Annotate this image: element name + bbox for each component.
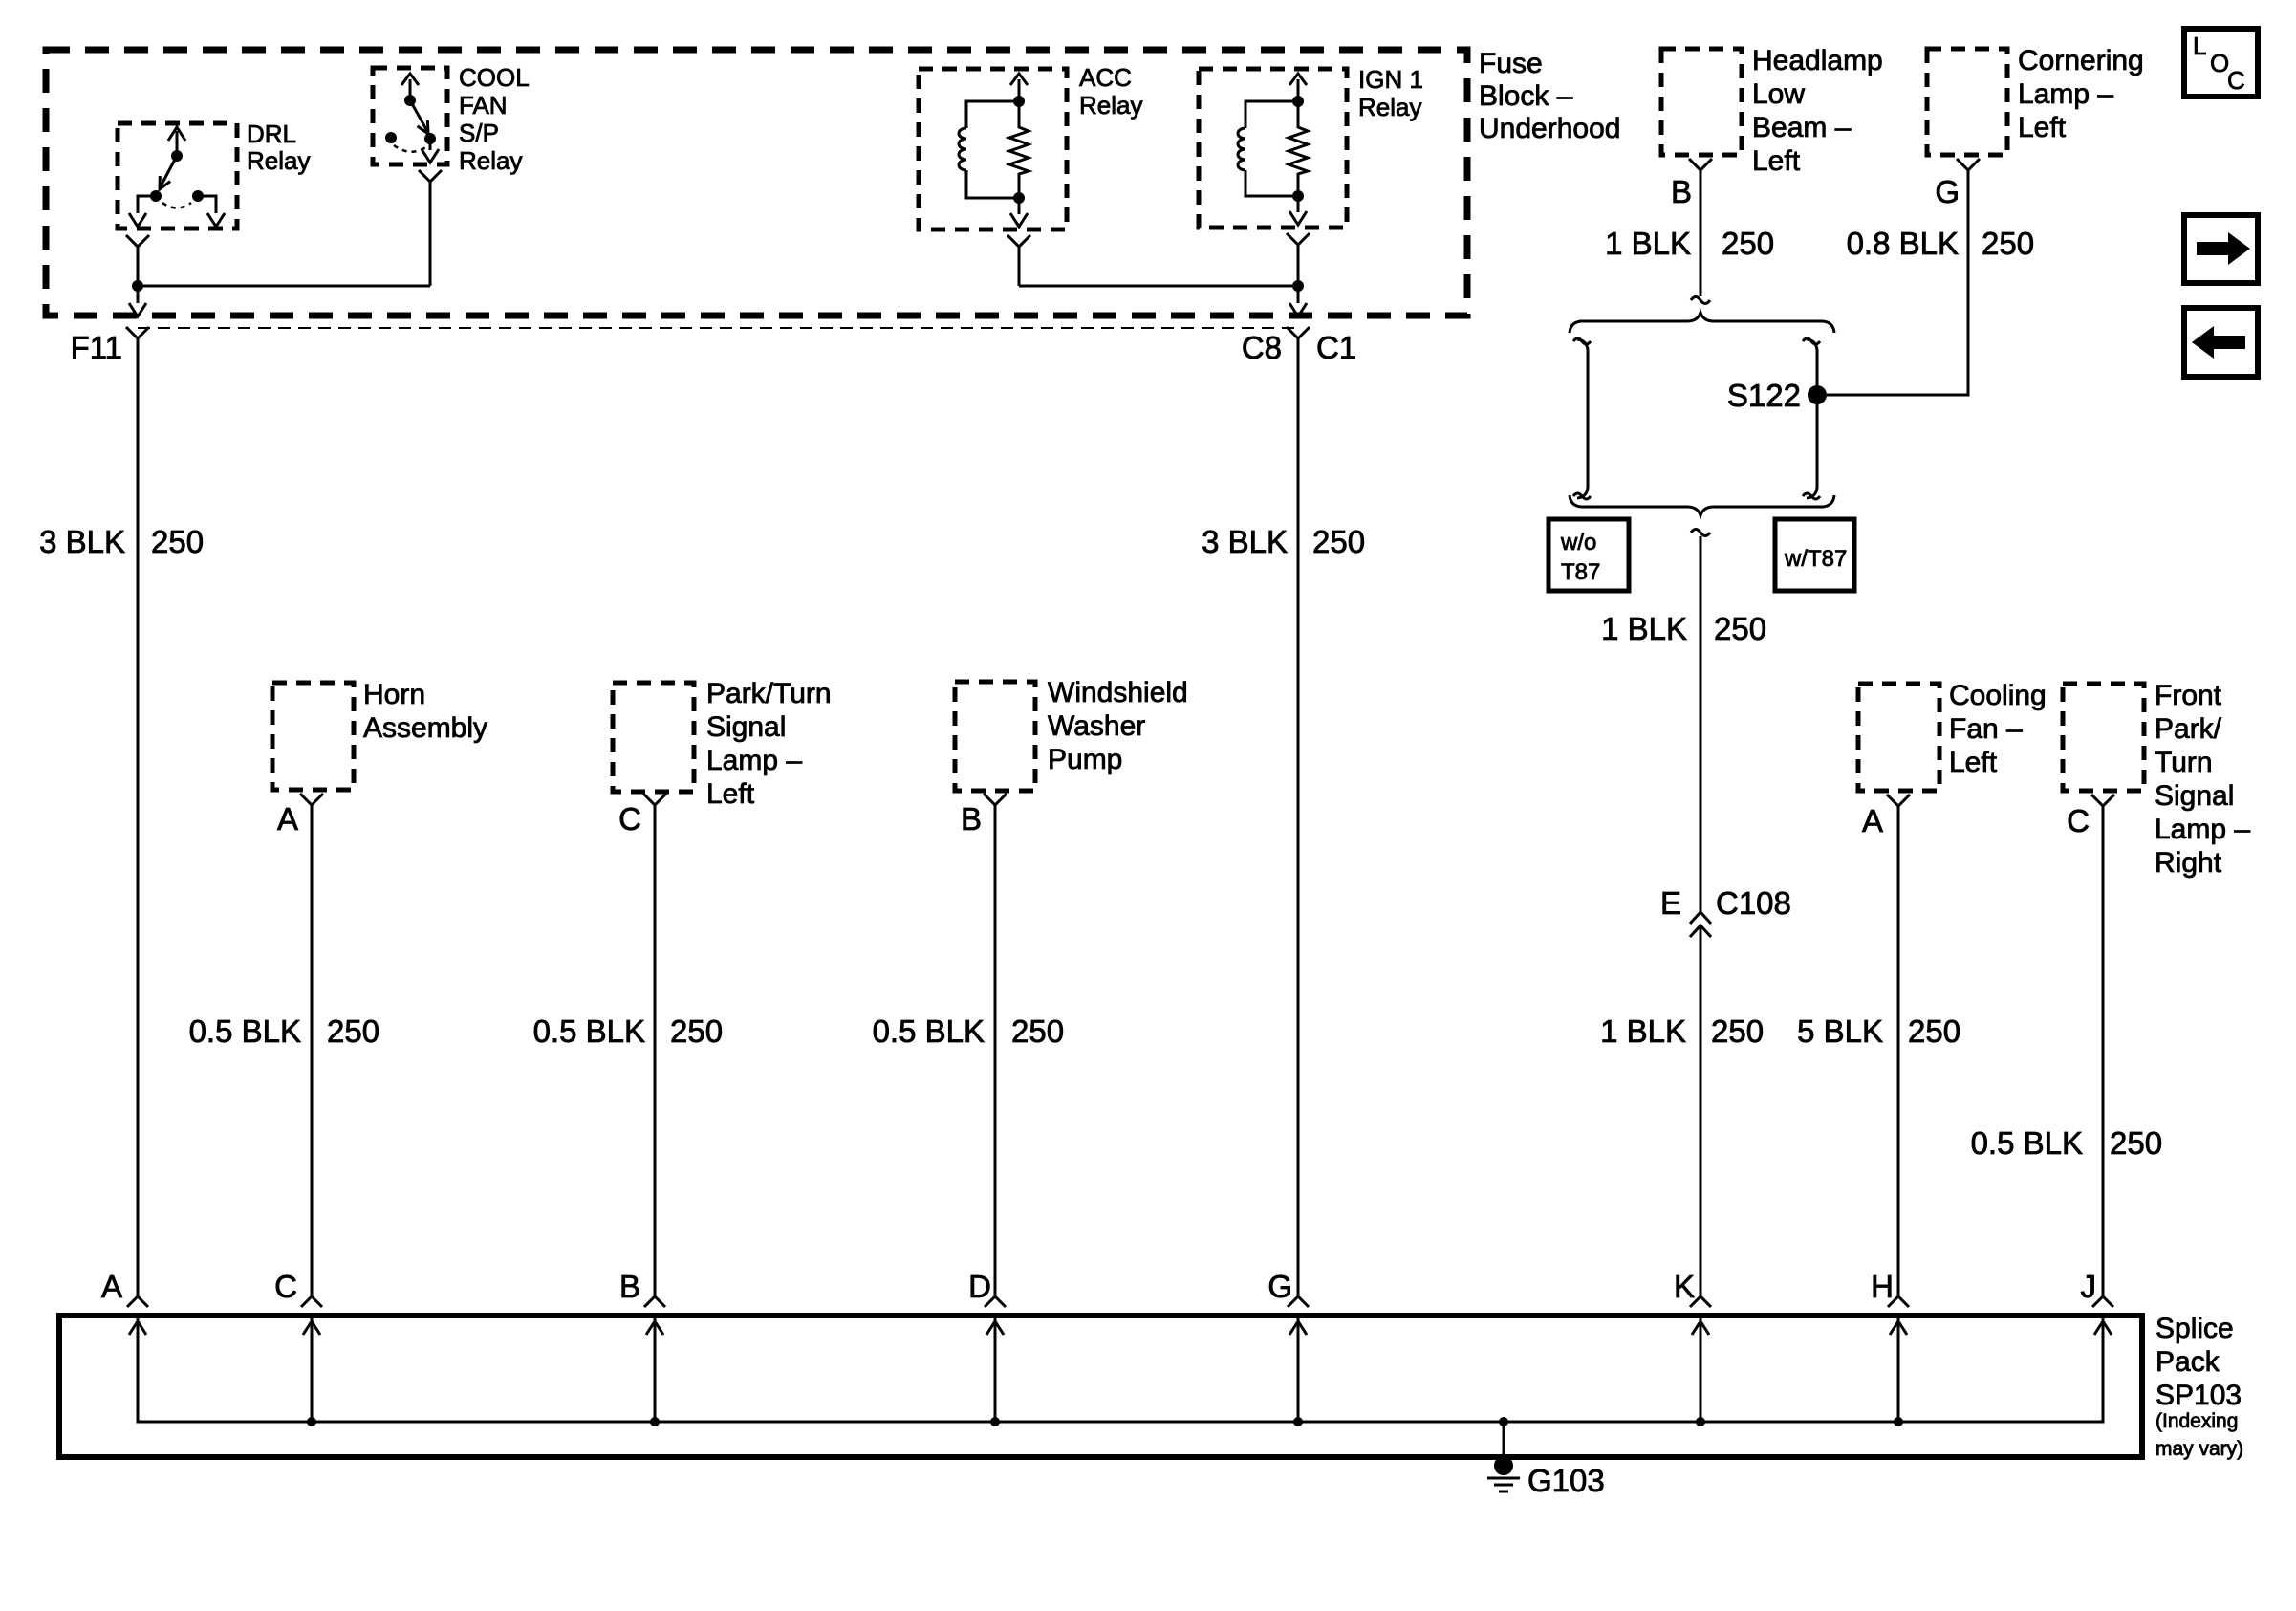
junction dot pin B	[650, 1417, 660, 1426]
svg-text:w/o: w/o	[1560, 530, 1596, 555]
COOL FAN relay pole dot	[424, 133, 436, 144]
svg-text:Park/Turn: Park/Turn	[706, 678, 832, 709]
svg-text:Park/: Park/	[2155, 713, 2222, 745]
svg-text:C108: C108	[1716, 885, 1791, 921]
svg-text:C: C	[2227, 66, 2245, 95]
ACC relay coil branch	[959, 101, 1019, 198]
pin label G (cornering)	[1935, 174, 1960, 209]
svg-text:Lamp –: Lamp –	[2155, 814, 2250, 845]
label Front Park/Turn Signal Lamp - Right	[2155, 680, 2250, 879]
wire label 3 BLK 250 (C1 wire)	[1202, 524, 1365, 559]
svg-text:Fan –: Fan –	[1949, 713, 2023, 745]
svg-text:Underhood: Underhood	[1479, 113, 1620, 144]
DRL relay left contact exit	[129, 196, 156, 227]
connector F11	[126, 327, 149, 338]
svg-text:Relay: Relay	[459, 146, 522, 175]
fuse block connector face (thin dashed)	[138, 327, 1298, 329]
connector at COOL FAN relay output	[419, 170, 442, 182]
svg-text:Turn: Turn	[2155, 747, 2213, 778]
svg-text:Cornering: Cornering	[2018, 45, 2144, 76]
junction dot pin C	[307, 1417, 316, 1426]
svg-text:Left: Left	[1949, 747, 1998, 778]
IGN 1 relay top node dot	[1292, 96, 1304, 107]
svg-text:Assembly: Assembly	[363, 712, 487, 744]
svg-text:Washer: Washer	[1048, 710, 1145, 742]
pin label E (C108)	[1660, 885, 1681, 921]
label Cornering Lamp - Left	[2018, 45, 2144, 143]
svg-text:Lamp –: Lamp –	[706, 745, 802, 776]
DRL relay right contact exit	[198, 196, 225, 227]
component Headlamp Low Beam - Left (dashed box)	[1661, 49, 1742, 155]
splice pack SP103 (box)	[59, 1316, 2142, 1457]
svg-text:1 BLK: 1 BLK	[1601, 611, 1687, 646]
IGN 1 relay bottom node dot	[1292, 190, 1304, 202]
junction dot pin H	[1894, 1417, 1903, 1426]
svg-text:250: 250	[1982, 226, 2034, 261]
arrow DRL junction to fuse block edge	[129, 286, 146, 316]
arrow box pointing left	[2184, 308, 2258, 377]
IGN 1 relay output arrow	[1289, 196, 1307, 225]
svg-text:250: 250	[1908, 1013, 1960, 1049]
svg-text:E: E	[1660, 885, 1681, 921]
svg-text:C8: C8	[1242, 330, 1282, 365]
svg-text:Windshield: Windshield	[1048, 677, 1188, 708]
wire C108 down to splice pack pin K	[1700, 925, 1702, 1297]
pin label C (front park/turn)	[2067, 803, 2090, 838]
pin label F11	[71, 330, 122, 365]
ACC relay pin arrow up	[1010, 74, 1028, 101]
label C108	[1716, 885, 1791, 921]
pin label A (cooling fan)	[1862, 803, 1883, 838]
svg-text:Left: Left	[2018, 112, 2067, 143]
DRL relay thrown-position arc (dashed)	[162, 203, 191, 208]
IGN 1 relay coil branch	[1238, 101, 1298, 196]
wire label 1 BLK 250 (headlamp)	[1605, 226, 1774, 261]
svg-text:250: 250	[2110, 1125, 2162, 1161]
svg-text:Fuse: Fuse	[1479, 48, 1543, 79]
option brace top	[1570, 313, 1834, 333]
connector pin G of cornering lamp	[1957, 159, 1980, 170]
svg-text:Horn: Horn	[363, 679, 425, 710]
connector pin C of front park/turn lamp	[2091, 795, 2114, 806]
pin label K (splice)	[1674, 1269, 1695, 1304]
label COOL FAN S/P Relay	[459, 63, 530, 175]
svg-text:Signal: Signal	[706, 711, 786, 743]
option box w/o T87	[1549, 519, 1629, 591]
label Park/Turn Signal Lamp - Left	[706, 678, 832, 810]
svg-text:0.5 BLK: 0.5 BLK	[873, 1013, 985, 1049]
wire headlamp B down to option brace	[1700, 170, 1702, 296]
ACC relay bottom node dot	[1013, 192, 1025, 204]
wire pin G to bus	[1297, 1318, 1300, 1422]
svg-text:Lamp –: Lamp –	[2018, 78, 2113, 110]
splice pack bus wire	[138, 1318, 2103, 1422]
wire pin H to bus	[1897, 1318, 1900, 1422]
svg-text:Signal: Signal	[2155, 780, 2234, 812]
COOL FAN relay switch blade	[410, 100, 428, 134]
svg-text:Beam –: Beam –	[1752, 112, 1852, 143]
svg-text:0.5 BLK: 0.5 BLK	[533, 1013, 645, 1049]
connector chevron pin D	[985, 1296, 1006, 1307]
connector chevron pin K	[1690, 1296, 1711, 1307]
label w/o T87	[1560, 530, 1600, 585]
svg-text:250: 250	[1011, 1013, 1064, 1049]
svg-text:F11: F11	[71, 330, 122, 365]
arrow into pin K	[1692, 1321, 1709, 1335]
ACC relay top node dot	[1013, 96, 1025, 107]
option branch left (w/o T87)	[1573, 338, 1591, 499]
pin label J (splice)	[2081, 1269, 2097, 1304]
wire horn A down to splice pack pin C	[311, 805, 314, 1297]
pin label H (splice)	[1871, 1269, 1894, 1304]
svg-text:(Indexing: (Indexing	[2155, 1410, 2238, 1432]
wire label 3 BLK 250 (F11 wire)	[39, 524, 204, 559]
svg-text:C: C	[2067, 803, 2090, 838]
svg-text:Relay: Relay	[1358, 93, 1421, 121]
connector chevron pin A	[127, 1296, 148, 1307]
svg-text:3 BLK: 3 BLK	[39, 524, 125, 559]
wire pin K to bus	[1700, 1318, 1702, 1422]
connector chevron pin G	[1288, 1296, 1309, 1307]
pin label A (horn)	[277, 801, 298, 837]
junction dot pin D	[990, 1417, 1000, 1426]
svg-text:D: D	[968, 1269, 991, 1304]
svg-text:0.8 BLK: 0.8 BLK	[1847, 226, 1959, 261]
component Windshield Washer Pump (dashed box)	[955, 682, 1035, 791]
wire label 0.5 BLK 250 (front park/turn)	[1971, 1125, 2162, 1161]
svg-text:Headlamp: Headlamp	[1752, 45, 1883, 76]
svg-text:DRL: DRL	[247, 120, 296, 148]
svg-text:0.5 BLK: 0.5 BLK	[189, 1013, 301, 1049]
svg-text:L: L	[2193, 32, 2206, 60]
svg-text:250: 250	[1722, 226, 1774, 261]
ground G103 stub from bus	[1499, 1417, 1508, 1459]
svg-text:K: K	[1674, 1269, 1695, 1304]
connector pin C of park/turn lamp	[643, 794, 666, 805]
label ACC Relay	[1079, 63, 1142, 120]
label S122	[1727, 378, 1801, 413]
component Park/Turn Signal Lamp - Left (dashed box)	[613, 683, 694, 792]
svg-text:B: B	[619, 1269, 640, 1304]
relay IGN 1 (dashed box)	[1199, 69, 1347, 228]
component Horn Assembly (dashed box)	[272, 683, 354, 790]
svg-text:1 BLK: 1 BLK	[1600, 1013, 1686, 1049]
svg-text:Block –: Block –	[1479, 80, 1573, 112]
svg-text:may vary): may vary)	[2155, 1438, 2243, 1460]
svg-text:Splice: Splice	[2155, 1313, 2234, 1344]
svg-text:C1: C1	[1316, 330, 1356, 365]
wire option output down to C108	[1700, 536, 1702, 912]
component Cornering Lamp - Left (dashed box)	[1927, 49, 2007, 155]
svg-text:COOL: COOL	[459, 63, 530, 92]
LOC reference box	[2184, 29, 2258, 97]
svg-text:250: 250	[1711, 1013, 1764, 1049]
COOL FAN relay pin arrow up	[401, 74, 419, 100]
wire front park/turn C down to splice pack pin J	[2102, 806, 2105, 1297]
svg-text:A: A	[1862, 803, 1883, 838]
svg-text:ACC: ACC	[1079, 63, 1132, 92]
junction dot DRL/COOL FAN	[132, 280, 143, 292]
svg-text:T87: T87	[1561, 559, 1600, 585]
wire label 0.8 BLK 250 (cornering)	[1847, 226, 2034, 261]
relay COOL FAN S/P (dashed box)	[373, 68, 447, 164]
pin label G (splice)	[1267, 1269, 1292, 1304]
connector C108 (in-line, pin E)	[1690, 912, 1711, 937]
connector chevron pin B	[644, 1296, 665, 1307]
pin label C (splice)	[274, 1269, 297, 1304]
wire label 0.5 BLK 250 (park/turn)	[533, 1013, 723, 1049]
label Windshield Washer Pump	[1048, 677, 1188, 775]
svg-text:A: A	[101, 1269, 122, 1304]
wire label 1 BLK 250 (to pin K)	[1600, 1013, 1764, 1049]
label Horn Assembly	[363, 679, 487, 744]
label Fuse Block - Underhood	[1479, 48, 1620, 144]
wire F11 to splice pack pin A	[137, 338, 140, 1297]
wire link COOL FAN to DRL junction	[138, 285, 430, 288]
svg-text:250: 250	[151, 524, 204, 559]
svg-text:C: C	[618, 801, 641, 837]
wire link ACC to IGN junction	[1019, 285, 1298, 288]
COOL FAN relay switch common dot	[404, 95, 416, 106]
DRL relay switch common dot	[171, 150, 183, 162]
svg-text:G103: G103	[1527, 1463, 1605, 1498]
connector pin A of horn	[300, 794, 323, 805]
wire label 1 BLK 250 (above C108)	[1601, 611, 1766, 646]
wire label 5 BLK 250 (cooling fan)	[1797, 1013, 1960, 1049]
pin label C8	[1242, 330, 1282, 365]
connector chevron pin H	[1888, 1296, 1909, 1307]
svg-text:S122: S122	[1727, 378, 1801, 413]
ground G103 symbol	[1487, 1456, 1520, 1491]
wire ACC output down	[1018, 247, 1021, 286]
svg-text:B: B	[1671, 174, 1692, 209]
arrow into pin B	[646, 1321, 663, 1335]
svg-text:B: B	[961, 801, 982, 837]
IGN 1 relay pin arrow up	[1289, 74, 1307, 101]
svg-text:H: H	[1871, 1269, 1894, 1304]
DRL relay pin arrow up	[168, 127, 185, 156]
pin label D (splice)	[968, 1269, 991, 1304]
svg-text:G: G	[1267, 1269, 1292, 1304]
svg-text:Front: Front	[2155, 680, 2222, 711]
connector pin B of headlamp	[1689, 159, 1712, 170]
svg-text:SP103: SP103	[2155, 1380, 2242, 1411]
DRL relay switch blade	[160, 156, 177, 189]
COOL FAN relay thrown-position arc (dashed)	[394, 145, 427, 152]
COOL FAN relay output arrow	[422, 139, 439, 163]
svg-text:FAN: FAN	[459, 91, 508, 120]
svg-text:w/T87: w/T87	[1784, 546, 1847, 572]
pin label B (splice)	[619, 1269, 640, 1304]
wire pin D to bus	[994, 1318, 997, 1422]
junction dot pin G	[1293, 1417, 1303, 1426]
svg-text:G: G	[1935, 174, 1960, 209]
arrow box pointing right	[2184, 215, 2258, 283]
COOL FAN relay contact dot left	[385, 132, 397, 143]
svg-text:Pump: Pump	[1048, 744, 1122, 775]
relay ACC (dashed box)	[919, 69, 1067, 229]
wire break squiggle (headlamp wire)	[1691, 297, 1710, 304]
option box w/T87	[1775, 519, 1854, 591]
ACC relay output arrow	[1010, 198, 1028, 227]
label Headlamp Low Beam - Left	[1752, 45, 1883, 177]
svg-text:Left: Left	[706, 778, 755, 810]
wire IGN 1 output down to junction	[1297, 245, 1300, 286]
svg-text:J: J	[2081, 1269, 2097, 1304]
wire pin C to bus	[311, 1318, 314, 1422]
svg-text:Pack: Pack	[2155, 1346, 2220, 1378]
connector C8/C1	[1287, 327, 1310, 338]
svg-text:250: 250	[670, 1013, 723, 1049]
pin label C (park/turn)	[618, 801, 641, 837]
svg-text:IGN 1: IGN 1	[1358, 65, 1423, 94]
wire cooling fan A down to splice pack pin H	[1897, 806, 1900, 1297]
wire cornering G down and left to S122	[1827, 170, 1968, 395]
pin label A (splice)	[101, 1269, 122, 1304]
connector pin A of cooling fan	[1887, 795, 1910, 806]
fuse block - underhood (dashed outline)	[46, 50, 1467, 316]
label Cooling Fan - Left	[1949, 680, 2047, 778]
wire COOL FAN output down	[429, 182, 432, 286]
label IGN 1 Relay	[1358, 65, 1423, 121]
svg-text:C: C	[274, 1269, 297, 1304]
svg-text:250: 250	[327, 1013, 379, 1049]
wire pin B to bus	[654, 1318, 657, 1422]
connector at ACC relay output	[1007, 235, 1030, 247]
svg-text:5 BLK: 5 BLK	[1797, 1013, 1883, 1049]
arrow into pin C	[303, 1321, 320, 1335]
wire label 0.5 BLK 250 (washer)	[873, 1013, 1064, 1049]
svg-text:Right: Right	[2155, 847, 2222, 879]
pin label B (washer pump)	[961, 801, 982, 837]
DRL relay contact dot right	[192, 190, 204, 202]
svg-text:Relay: Relay	[247, 146, 310, 175]
arrow into pin A	[129, 1321, 146, 1335]
arrow into pin H	[1890, 1321, 1907, 1335]
svg-text:3 BLK: 3 BLK	[1202, 524, 1288, 559]
svg-text:Low: Low	[1752, 78, 1805, 110]
svg-text:1 BLK: 1 BLK	[1605, 226, 1691, 261]
svg-text:S/P: S/P	[459, 119, 499, 147]
wire park/turn C down to splice pack pin B	[654, 805, 657, 1297]
arrow into pin D	[986, 1321, 1004, 1335]
relay DRL (dashed box)	[118, 123, 237, 229]
junction dot ACC/IGN 1	[1292, 280, 1304, 292]
wire washer B down to splice pack pin D	[994, 805, 997, 1297]
svg-text:A: A	[277, 801, 298, 837]
connector chevron pin J	[2092, 1296, 2113, 1307]
option brace bottom	[1570, 495, 1834, 515]
DRL relay contact dot left	[150, 190, 162, 202]
wire DRL output down to junction	[137, 247, 140, 286]
connector chevron pin C	[301, 1296, 322, 1307]
svg-text:Left: Left	[1752, 145, 1801, 177]
arrow into pin J	[2094, 1321, 2112, 1335]
label Splice Pack SP103	[2155, 1313, 2243, 1460]
junction dot pin K	[1696, 1417, 1705, 1426]
svg-text:0.5 BLK: 0.5 BLK	[1971, 1125, 2083, 1161]
label w/T87	[1784, 546, 1847, 572]
label DRL Relay	[247, 120, 310, 175]
option branch right (w/T87)	[1803, 338, 1820, 499]
svg-text:250: 250	[1714, 611, 1766, 646]
pin label C1	[1316, 330, 1356, 365]
IGN 1 relay resistor (zigzag)	[1289, 101, 1308, 196]
wire label 0.5 BLK 250 (horn)	[189, 1013, 379, 1049]
arrow IGN junction to fuse block edge	[1289, 286, 1307, 316]
arrow into pin G	[1289, 1321, 1307, 1335]
svg-text:250: 250	[1312, 524, 1365, 559]
ACC relay resistor (zigzag)	[1009, 101, 1029, 198]
connector pin B of washer pump	[984, 794, 1007, 805]
svg-text:Relay: Relay	[1079, 91, 1142, 120]
wire break squiggle below brace	[1691, 530, 1710, 536]
svg-text:Cooling: Cooling	[1949, 680, 2047, 711]
connector at DRL relay output	[126, 235, 149, 247]
component Cooling Fan - Left (dashed box)	[1858, 684, 1939, 791]
pin label B (headlamp)	[1671, 174, 1692, 209]
label G103	[1527, 1463, 1605, 1498]
splice S122 dot	[1808, 385, 1827, 404]
connector at IGN 1 relay output	[1287, 233, 1310, 245]
wire C1 to splice pack pin G	[1297, 338, 1300, 1297]
component Front Park/Turn Signal Lamp - Right (dashed box)	[2063, 684, 2144, 791]
